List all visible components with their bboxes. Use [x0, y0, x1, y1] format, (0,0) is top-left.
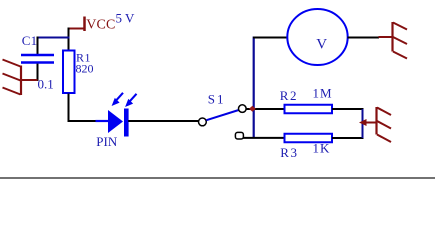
resistor R2 [285, 105, 333, 114]
wire C1 top lead [37, 37, 39, 55]
svg-text:1M: 1M [313, 86, 333, 101]
wire vertical switch to voltmeter and R3 row [253, 37, 255, 138]
photodiode D1 PIN [108, 93, 137, 137]
wire corner to voltmeter [253, 37, 288, 39]
svg-text:R3: R3 [280, 145, 298, 160]
wire R3 right [332, 137, 364, 139]
wire VCC to R1 top [68, 28, 70, 52]
wire R1 bottom to diode [69, 94, 97, 122]
wire vertical R2-R3 right [362, 109, 364, 138]
svg-text:820: 820 [76, 62, 94, 76]
svg-text:VCC: VCC [86, 18, 115, 33]
svg-text:5 V: 5 V [116, 11, 136, 26]
wire C1 bottom lead [37, 64, 39, 81]
voltmeter U1 [287, 9, 347, 65]
resistor R1 [63, 51, 75, 94]
switch S1 [199, 105, 247, 139]
node junction dot [249, 106, 256, 112]
ground left symbol [3, 60, 38, 96]
ground top right symbol [379, 22, 408, 59]
svg-text:C1: C1 [22, 33, 38, 48]
wire switch common to R2 [246, 108, 285, 110]
wire voltmeter to ground right [348, 37, 380, 39]
svg-text:1K: 1K [313, 141, 331, 156]
ground middle right symbol [359, 107, 391, 142]
wire lower throw to R3 [243, 137, 285, 139]
capacitor C1 plates [21, 55, 54, 63]
wire C1 branch horizontal [38, 37, 70, 39]
window border bottom [0, 177, 435, 179]
wire diode anode lead [96, 120, 109, 122]
resistor R3 [285, 134, 333, 143]
power VCC symbol [69, 17, 85, 32]
svg-text:PIN: PIN [96, 134, 118, 149]
svg-text:S1: S1 [208, 92, 226, 107]
wire diode to switch [128, 120, 199, 122]
svg-text:R2: R2 [280, 88, 298, 103]
svg-text:0.1: 0.1 [38, 77, 54, 92]
svg-text:V: V [316, 37, 327, 53]
wire R2 right [332, 108, 364, 110]
